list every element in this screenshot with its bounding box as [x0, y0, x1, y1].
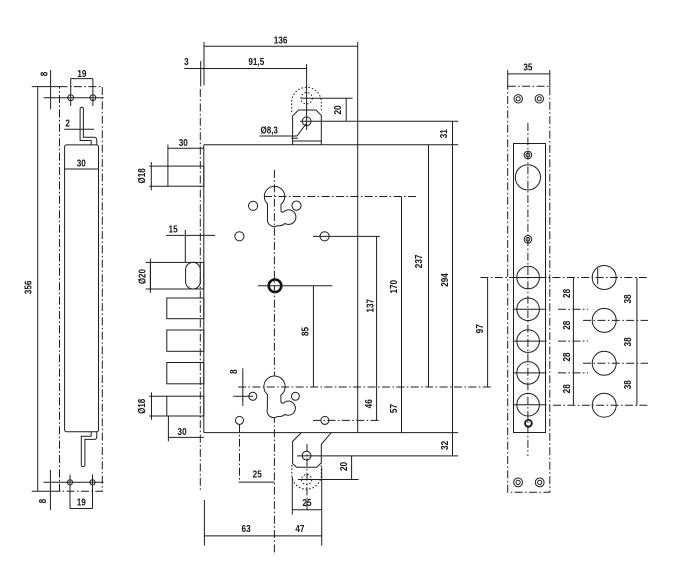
svg-text:8: 8: [39, 71, 50, 76]
svg-text:237: 237: [414, 254, 425, 268]
bottom tab centre line: [306, 444, 308, 512]
bottom pin / bent tab: [81, 432, 97, 467]
extension of body top to right: [358, 144, 459, 146]
svg-text:30: 30: [178, 427, 187, 438]
dimension 3 and 91,5: [184, 68, 306, 70]
centre line bottom row: [553, 404, 648, 406]
diameter 18 block bottom: [167, 396, 204, 416]
dimension 25 bottom tab: [292, 509, 321, 511]
dimension 356 line: [37, 87, 39, 492]
bolt block 2: [167, 330, 204, 351]
bottom tab hole: [302, 451, 311, 460]
deviator hole 4: [592, 393, 616, 417]
bolt block 1: [167, 298, 204, 319]
svg-text:91,5: 91,5: [248, 57, 264, 68]
svg-text:46: 46: [364, 399, 375, 408]
diameter 18 block top: [168, 166, 204, 186]
small hole left of bottom keyhole: [249, 392, 257, 400]
small hole lower-left: [235, 232, 244, 241]
diameter 20 block: [150, 262, 203, 289]
svg-text:28: 28: [562, 384, 573, 393]
svg-text:136: 136: [274, 36, 288, 47]
svg-text:294: 294: [440, 273, 451, 287]
svg-text:47: 47: [295, 524, 304, 535]
dimension 28 line: [572, 278, 574, 405]
keyhole bottom centre line: [238, 386, 493, 388]
top screw hole right: [535, 95, 543, 103]
svg-text:25: 25: [302, 498, 311, 509]
svg-text:170: 170: [389, 280, 400, 294]
svg-text:2: 2: [65, 119, 70, 130]
recessed plate rect: [514, 144, 546, 433]
dimension 8 bottom: [49, 470, 51, 510]
svg-text:28: 28: [562, 352, 573, 361]
bolt block 3: [167, 363, 204, 384]
top screw hole right: [90, 95, 96, 101]
top pin / bent tab: [80, 107, 97, 145]
svg-text:97: 97: [475, 324, 486, 333]
crosshair through top holes: [44, 97, 104, 99]
dimension 30 (left view): [65, 168, 99, 170]
svg-text:35: 35: [523, 63, 532, 74]
bottom screw hole right: [535, 478, 544, 487]
top tab inner line: [293, 140, 322, 142]
keyhole top (double-bit): [264, 186, 296, 226]
dimension 20 top: [345, 98, 347, 121]
svg-text:57: 57: [389, 404, 400, 413]
dimension 30 bottom: [168, 436, 203, 438]
svg-text:Ø20: Ø20: [138, 269, 149, 284]
faceplate centre line (dash-dot): [199, 89, 201, 490]
dimension 20 bottom: [351, 456, 353, 480]
dotted circle crosshair / 20 extension: [301, 97, 352, 99]
dimension 63 / 47: [204, 535, 321, 537]
dimension 8 at bottom keyhole: [242, 368, 244, 406]
deviator hole 1: [592, 266, 616, 290]
bolt slot capsule: [186, 262, 201, 289]
extension of body bottom to right: [358, 432, 459, 434]
lock body side view rect: [65, 145, 99, 432]
extension line top: [32, 86, 61, 88]
svg-text:20: 20: [339, 462, 350, 471]
bolt hole 1: [517, 266, 540, 289]
svg-text:25: 25: [253, 470, 262, 481]
bolt hole 5: [517, 393, 540, 416]
top tab dotted stadium: [292, 87, 322, 112]
dimension 19 bottom: [70, 508, 93, 510]
svg-text:Ø18: Ø18: [137, 168, 148, 183]
bolt hole 4: [517, 362, 540, 385]
faceplate outer outline (dash-dot): [508, 86, 550, 492]
dimension 30 top: [168, 147, 204, 149]
keyhole bottom (double-bit): [264, 376, 296, 418]
bottom tab dotted circle: [302, 475, 312, 485]
centre line through lower-right hole: [313, 419, 380, 421]
bottom screw hole right: [90, 480, 95, 485]
top tab solid outline: [293, 110, 322, 145]
bottom screw hole left: [67, 480, 72, 485]
dimension 136: [204, 45, 358, 47]
small hole left of top keyhole: [249, 201, 258, 210]
hole crosshair / 31 extension: [300, 120, 458, 122]
small hole lower-left bottom: [236, 416, 244, 424]
deviator hole 2: [592, 308, 616, 332]
top screw hole left: [514, 95, 522, 103]
top screw hole left: [68, 95, 74, 101]
svg-text:28: 28: [562, 320, 573, 329]
svg-text:63: 63: [242, 524, 251, 535]
dimension 8 top: [50, 70, 52, 109]
small bold ring: [525, 420, 532, 427]
bottom screw hole left: [514, 478, 523, 487]
cylinder hole: [515, 165, 540, 190]
dimension line 170/57: [401, 197, 403, 433]
top tab dotted circle: [301, 93, 312, 104]
small ring hole 1: [524, 151, 532, 159]
body right edge + 136 extension: [357, 42, 359, 433]
crosshair / 137 extension: [313, 235, 380, 237]
svg-text:Ø18: Ø18: [137, 398, 148, 413]
svg-text:137: 137: [366, 299, 377, 313]
svg-text:Ø8,3: Ø8,3: [261, 126, 279, 137]
crosshair of bold circle / 85 extension: [258, 285, 332, 287]
keyhole top centre line: [264, 196, 416, 198]
svg-text:20: 20: [333, 105, 344, 114]
body centre line vertical: [273, 170, 275, 555]
bottom hole crosshair / 32 extension: [297, 455, 458, 457]
faceplate hidden outline (dash-dot rect): [60, 87, 103, 492]
fixing hole (bold circle): [269, 280, 282, 293]
svg-text:32: 32: [440, 440, 451, 449]
svg-text:19: 19: [77, 69, 86, 80]
extension tick at deviator hole 1: [597, 268, 599, 284]
dimension 35: [508, 73, 550, 75]
bottom tab solid outline: [293, 433, 332, 468]
dimension 15: [166, 234, 215, 236]
centre line through bolt hole row 1: [480, 277, 648, 279]
svg-text:38: 38: [623, 380, 634, 389]
deviator hole 3: [592, 351, 616, 375]
small hole lower-right bottom: [321, 416, 329, 424]
dimension 85: [312, 286, 314, 387]
dimension 25 left: [239, 481, 275, 483]
body outline: [203, 145, 205, 433]
svg-text:31: 31: [439, 129, 450, 138]
dimension line 237: [428, 145, 430, 387]
svg-text:8: 8: [38, 498, 49, 503]
bolt hole 3: [517, 330, 540, 353]
svg-text:30: 30: [179, 138, 188, 149]
svg-text:38: 38: [623, 294, 634, 303]
svg-text:356: 356: [23, 280, 34, 294]
top tab centre line: [306, 64, 308, 130]
dash-dot stubs at 28 ticks: [558, 308, 588, 310]
dashed line from lower-left hole down: [239, 424, 241, 482]
small ring hole 2: [524, 236, 532, 244]
svg-text:8: 8: [229, 369, 240, 374]
dimension line 31/294/32: [452, 121, 454, 456]
small hole right of bottom keyhole: [291, 392, 299, 400]
dimension 97: [487, 278, 489, 388]
svg-text:28: 28: [562, 288, 573, 297]
dimension line 137/46: [376, 236, 378, 420]
small hole right of top keyhole: [292, 201, 301, 210]
svg-text:30: 30: [77, 159, 86, 170]
svg-text:15: 15: [169, 224, 178, 235]
svg-text:3: 3: [184, 57, 189, 68]
bolt hole 2: [517, 298, 540, 321]
svg-text:19: 19: [77, 498, 86, 509]
dimension 19 top: [71, 78, 93, 80]
svg-text:38: 38: [623, 337, 634, 346]
svg-text:85: 85: [300, 327, 311, 336]
plate centre line: [527, 123, 529, 456]
extension line bottom: [32, 490, 61, 492]
crosshair through bottom holes: [44, 481, 104, 483]
small hole lower-right with line: [320, 232, 329, 241]
hole diameter 8.3: [302, 117, 311, 126]
bottom tab dotted extension: [292, 463, 322, 489]
dimension 38 line: [636, 278, 638, 406]
